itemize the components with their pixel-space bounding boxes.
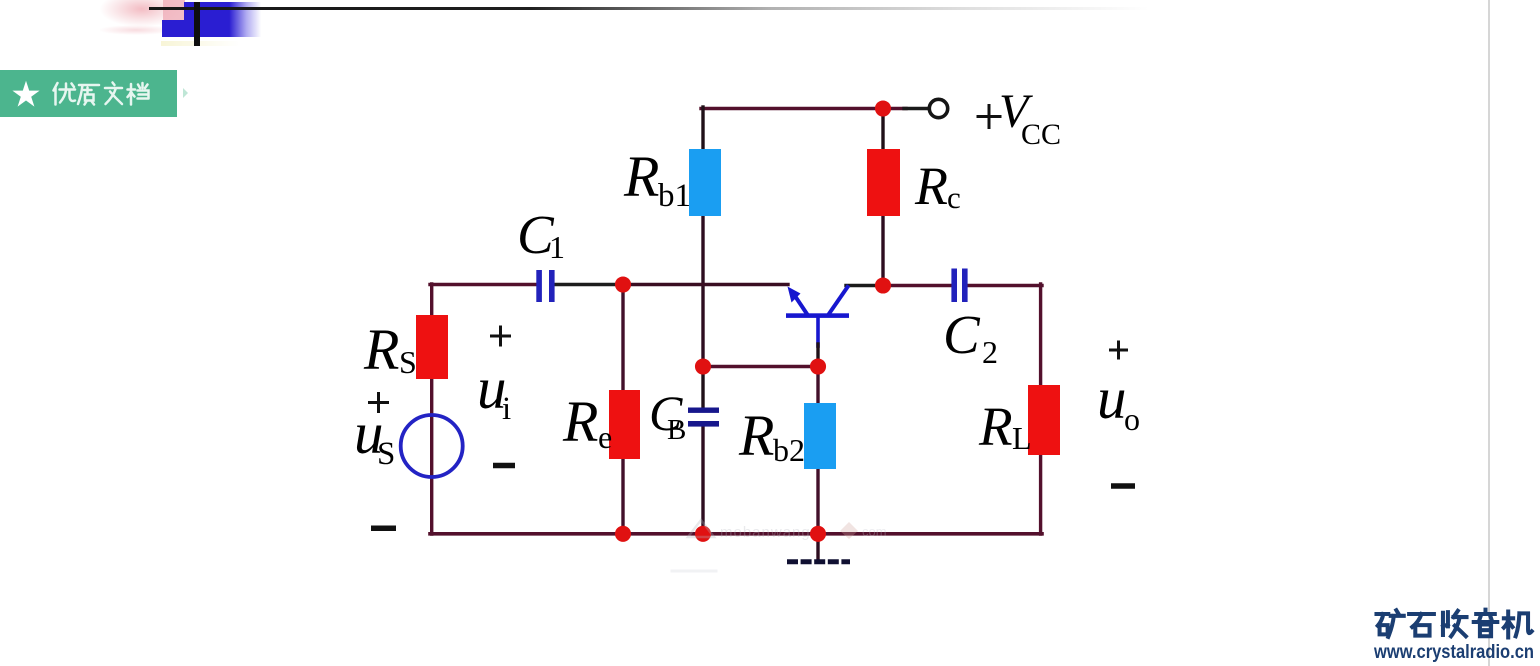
svg-text:o: o (1124, 401, 1140, 437)
label +ui (477, 326, 515, 466)
wire Rc top stub (881, 109, 884, 151)
wire CB top stub (701, 367, 704, 408)
badge text glyph wen2 (105, 83, 122, 105)
logo glyph yin1 (1474, 610, 1498, 637)
svg-text:u: u (1097, 365, 1127, 431)
wire left column (430, 284, 433, 534)
watermark: crystalradio logo (1360, 600, 1540, 666)
wire CB bottom stub (701, 427, 704, 534)
header decoration: pink square over blue corner (163, 0, 185, 20)
header decoration: pink streak (100, 25, 172, 35)
label Rb1 (623, 144, 691, 214)
node dot bottom ground (810, 526, 826, 542)
wire Rb1 top stub (701, 107, 704, 150)
source uS (401, 415, 463, 477)
wire top rail (701, 107, 906, 110)
label +uS (354, 392, 395, 472)
node dot base rail left (695, 358, 711, 374)
badge text glyph you1 (54, 83, 76, 105)
svg-text:R: R (562, 389, 598, 454)
node dot base rail right (810, 358, 826, 374)
resistor Rb2 (804, 403, 836, 469)
svg-text:c: c (947, 180, 961, 215)
svg-text:CC: CC (1021, 118, 1061, 151)
wire Rc bottom stub (881, 215, 884, 286)
terminal +Vcc (929, 99, 947, 117)
label +uo (1097, 341, 1140, 487)
wire Vcc terminal stub (904, 107, 929, 110)
badge text glyph zhi4 (78, 85, 99, 105)
wire Rb2 column (816, 367, 819, 535)
badge: green quality-doc ribbon (0, 70, 177, 117)
resistor Rc (867, 149, 900, 216)
svg-text:com: com (862, 524, 887, 539)
transistor Q1 (786, 287, 849, 368)
node dot Vcc rail junction (875, 100, 891, 116)
wire output rail to C2 (883, 284, 952, 287)
wire Re column (621, 285, 624, 535)
node dot C1-Re junction (615, 276, 631, 292)
wire Rb1 bottom / CB column upper (701, 215, 704, 367)
svg-text:C: C (943, 304, 981, 365)
svg-text:i: i (502, 391, 511, 427)
ground symbol (787, 559, 850, 564)
label CB (649, 385, 686, 446)
wire bottom rail (430, 532, 1042, 536)
svg-text:e: e (598, 419, 612, 455)
badge star icon (12, 81, 39, 107)
resistor Re (609, 390, 640, 459)
capacitor CB (688, 408, 719, 427)
wire C2 to right column (967, 284, 1042, 287)
wire collector stub (846, 284, 883, 287)
resistor RS (416, 315, 448, 379)
svg-text:mobanwang: mobanwang (720, 524, 811, 541)
svg-text:R: R (978, 396, 1013, 457)
svg-text:R: R (738, 403, 774, 468)
label RS (363, 317, 417, 382)
header decoration: blue block upper (184, 2, 262, 37)
svg-text:b1: b1 (658, 178, 691, 214)
header decoration: black horizontal rule fading right (149, 7, 1149, 10)
header decoration: yellow streak (161, 41, 241, 46)
svg-text:www.crystalradio.cn: www.crystalradio.cn (1373, 642, 1534, 663)
watermark faint center (672, 520, 887, 571)
node dot bottom Re (615, 526, 631, 542)
badge text glyph dang4 (128, 83, 149, 105)
wire mid rail base node (703, 365, 818, 368)
wire C1 to node (554, 283, 624, 286)
label Rb2 (738, 403, 805, 468)
wire input rail left (430, 283, 537, 286)
logo glyph ji1 (1504, 611, 1532, 637)
label C2 (943, 304, 998, 370)
wire right column (1039, 284, 1042, 534)
right side: faint gray separator line (1488, 0, 1490, 666)
label +Vcc (977, 85, 1062, 151)
wire node to emitter (623, 283, 788, 286)
resistor Rb1 (689, 149, 721, 216)
node dot collector junction (875, 277, 891, 293)
header decoration: blue block lower-left (162, 20, 185, 37)
logo glyph shou1 (1443, 611, 1467, 636)
svg-text:L: L (1012, 420, 1032, 456)
svg-text:R: R (914, 156, 948, 216)
badge edge mark (183, 88, 188, 98)
svg-text:S: S (399, 344, 417, 380)
capacitor C2 (951, 269, 967, 303)
wire ground stub (816, 534, 819, 559)
svg-text:1: 1 (549, 229, 565, 265)
node dot bottom CB (695, 526, 711, 542)
label RL (978, 396, 1032, 457)
svg-text:B: B (667, 414, 686, 446)
header decoration: black vertical tick (194, 2, 200, 46)
label Rc (914, 156, 961, 216)
label C1 (517, 204, 565, 265)
logo glyph kuang4 (1376, 610, 1403, 637)
svg-text:2: 2 (982, 334, 998, 370)
svg-text:R: R (363, 317, 399, 382)
label minus bottom-left (371, 526, 396, 532)
resistor RL (1028, 385, 1060, 455)
logo glyph shi2 (1409, 614, 1434, 636)
svg-text:R: R (623, 144, 659, 209)
header decoration: pink blur blob (98, 0, 182, 30)
svg-text:S: S (377, 436, 395, 472)
svg-text:b2: b2 (773, 432, 805, 468)
label Re (562, 389, 612, 455)
capacitor C1 (536, 270, 554, 302)
